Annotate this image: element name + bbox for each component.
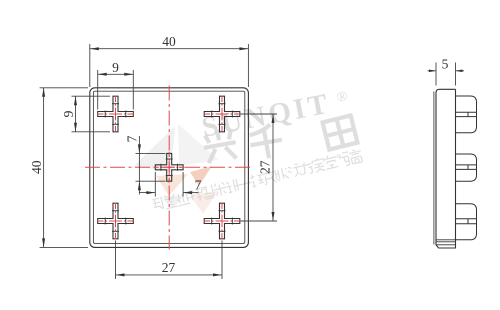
watermark tagline pseudo text [152,148,364,212]
svg-text:7: 7 [125,135,140,142]
cross slot top-left [97,96,134,133]
cross slot top-right [204,96,241,133]
front view outer plate outline [90,88,249,248]
svg-text:9: 9 [112,60,119,75]
side view tab 3 [456,204,477,240]
svg-text:40: 40 [162,34,176,49]
svg-text:27: 27 [258,160,273,174]
dimension 27 right [240,114,277,221]
dimension 9 top [98,70,134,110]
cross slot center [154,152,185,183]
side view plate outline [436,89,456,248]
dimension 9 left text [61,110,76,117]
dimension 9 left [72,96,111,132]
dimension 27 bottom [116,241,223,280]
cross slot bottom-right [204,203,241,240]
main vertical centerline [168,86,170,250]
watermark SUNQIT text [199,84,351,144]
svg-text:40: 40 [29,160,44,174]
svg-text:7: 7 [195,178,202,193]
dimension 5 side view [428,63,465,86]
svg-text:5: 5 [442,57,449,72]
svg-text:27: 27 [162,260,176,275]
dimension 27 right text [258,160,273,174]
side view tab 2 [456,154,477,181]
main horizontal centerline [85,166,250,168]
svg-text:9: 9 [61,110,76,117]
side view bottom foot lines [436,240,456,245]
front view inner offset edge [93,91,244,243]
side view tab 1 [456,96,477,133]
dimension 7 vertical (center cross) [136,136,166,195]
dimension 7 vertical text [125,135,140,142]
dimension 7 horizontal (center cross) [139,172,198,197]
watermark logo pinwheel [134,124,219,214]
dimension 40 top [90,44,249,87]
watermark chinese characters xing qian tian [201,115,357,163]
cross slot bottom-left [97,203,134,240]
dimension 40 left text [29,160,44,174]
side view far edge line [433,92,435,245]
dimension 40 left [40,88,88,248]
